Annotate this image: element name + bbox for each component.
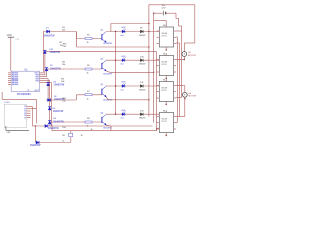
junction bus A loop <box>148 23 149 24</box>
pin stub RL3 left 2 <box>157 91 160 93</box>
resistor R7 base row 3 <box>85 94 92 96</box>
wire riser 2 <box>44 52 46 75</box>
svg-text:1N4007W: 1N4007W <box>30 144 41 147</box>
svg-text:1N4007W: 1N4007W <box>43 35 55 38</box>
svg-text:12V DC: 12V DC <box>161 64 167 66</box>
transistor Q1 BC547 <box>102 32 106 43</box>
junction motor2 <box>184 98 185 99</box>
wire emitter rail row 2 <box>110 71 154 73</box>
pin stub RL2 right 2 <box>174 65 176 67</box>
junction bus row1 <box>115 31 116 32</box>
wire left edge drop <box>1 92 3 99</box>
svg-text:RB3: RB3 <box>36 80 39 82</box>
junction bus A row1 <box>148 31 149 32</box>
junction rail3 bus <box>148 99 149 100</box>
svg-text:1N4007: 1N4007 <box>139 35 146 37</box>
pin stub RL2 left 3 <box>157 71 160 73</box>
wire bus left C <box>156 52 158 131</box>
svg-text:MOTOR: MOTOR <box>188 55 196 57</box>
diode DF 1N4148 <box>48 98 51 101</box>
transistor Q2 BC547 <box>102 61 106 72</box>
wire LCD top rail <box>2 98 36 100</box>
pin stub U1 right 1 <box>40 72 44 74</box>
junction bottom cluster <box>35 125 36 126</box>
wire motor1 top <box>183 43 185 52</box>
svg-text:1N4007: 1N4007 <box>139 118 146 120</box>
pin stub RL1 left 3 <box>157 43 160 45</box>
junction bus row3 <box>115 85 116 86</box>
wire emitter Q3 link <box>106 97 108 100</box>
wire drop battery plus <box>175 13 177 18</box>
wire drop to bottom row B <box>34 126 36 143</box>
svg-text:R9: R9 <box>62 135 65 137</box>
resistor R5 base row 1 <box>85 38 92 40</box>
wire RL1 pin1 link <box>176 30 182 32</box>
wire base row 2 <box>76 68 102 70</box>
pin stub U1 left 6 <box>8 81 11 83</box>
junction RL4 bottom <box>166 135 167 136</box>
diode D4 1N4148 vertical <box>48 121 51 124</box>
svg-text:P4: P4 <box>24 115 26 117</box>
wire base row 4 <box>76 121 102 123</box>
svg-text:1k: 1k <box>87 98 89 100</box>
pin stub RL1 left 1 <box>157 30 160 32</box>
svg-text:P5: P5 <box>24 117 26 119</box>
junction motor1 <box>184 59 185 60</box>
svg-text:D11: D11 <box>140 82 144 84</box>
wire bus right A <box>176 37 178 123</box>
svg-text:+5V: +5V <box>15 39 19 41</box>
svg-text:R5: R5 <box>87 35 90 37</box>
pin stub RL3 right 2 <box>174 91 176 93</box>
wire RL3 pin3 link <box>176 97 182 99</box>
pin stub LCD right 6 <box>27 117 31 119</box>
svg-text:12V: 12V <box>161 8 165 10</box>
relay RL1 top pin <box>165 25 167 27</box>
wire motor1 bottom <box>183 56 185 59</box>
pin stub U1 left 7 <box>8 83 11 85</box>
relay RL2 bottom pin <box>165 76 167 79</box>
svg-text:LED: LED <box>121 56 126 58</box>
wire top loop row1 <box>111 23 149 25</box>
wire channel row 3 <box>106 85 160 87</box>
pin stub LCD right 3 <box>27 110 31 112</box>
wire bus right B <box>179 43 181 117</box>
svg-text:1k: 1k <box>81 135 83 137</box>
diode DB 1N4148 <box>45 124 48 127</box>
pin stub RL2 left 2 <box>157 65 160 67</box>
svg-text:10k: 10k <box>62 64 66 66</box>
svg-text:R8: R8 <box>87 118 90 120</box>
wire riser 6 <box>50 82 52 126</box>
svg-text:100: 100 <box>62 101 65 103</box>
ground wire dark <box>6 126 29 130</box>
svg-text:D10: D10 <box>140 56 145 58</box>
svg-text:OSC2: OSC2 <box>34 90 39 92</box>
wire RL3 pin1 to motor2 <box>176 85 185 87</box>
wire R11 bottom <box>70 137 72 143</box>
svg-text:red: red <box>121 64 124 66</box>
wire emitter rail row 1 <box>76 46 148 48</box>
LED D6 <box>122 57 126 61</box>
junction RL3 bottom <box>166 104 167 105</box>
relay RL1 body <box>159 27 173 47</box>
svg-text:D1: D1 <box>46 28 50 30</box>
IC U1 microcontroller body <box>11 71 39 91</box>
junction RL1 bottom <box>166 49 167 50</box>
wire into RL4 pin 3 <box>157 127 160 129</box>
pin stub RL1 right 1 <box>174 30 176 32</box>
svg-text:U5: U5 <box>188 52 192 54</box>
pin stub U1 left 3 <box>8 76 11 78</box>
diode D3 1N4148 vertical <box>47 83 50 86</box>
svg-text:12V DC: 12V DC <box>161 35 167 37</box>
junction bus row2 <box>115 60 116 61</box>
svg-text:OMI-SH: OMI-SH <box>161 62 168 64</box>
wire rail to RL1 top <box>154 20 167 22</box>
svg-text:BC547B: BC547B <box>104 43 113 45</box>
svg-text:1N4007W: 1N4007W <box>48 127 59 130</box>
pin stub RL4 left 1 <box>157 116 160 118</box>
svg-text:Q1: Q1 <box>100 30 104 32</box>
junction battery bus B <box>153 13 154 14</box>
wire channel row 4 <box>106 113 160 115</box>
wire bus left A <box>148 5 150 117</box>
wire motor2 bottom <box>184 97 186 116</box>
svg-text:1k: 1k <box>62 141 64 143</box>
wire drop rail right <box>194 5 196 43</box>
relay RL1 bottom pin <box>165 47 167 50</box>
wire riser 4 <box>47 79 49 100</box>
diode DE 1N4148 <box>36 141 39 144</box>
svg-text:red: red <box>121 118 124 120</box>
svg-text:Q4: Q4 <box>100 112 104 114</box>
svg-text:red: red <box>121 35 124 37</box>
wire battery left <box>154 12 163 14</box>
svg-text:red: red <box>121 89 124 91</box>
wire battery right <box>166 12 176 14</box>
wire LCD pin2 out <box>31 108 37 110</box>
relay RL4 body <box>159 113 173 133</box>
relay RL3 body <box>159 82 173 102</box>
diode flyback row 1 1N4007 <box>140 30 143 33</box>
pin stub RL2 left 1 <box>157 59 160 61</box>
wire LCD riser A <box>31 107 33 127</box>
transistor Q4 BC547 <box>102 115 106 126</box>
svg-text:LCD1: LCD1 <box>5 102 11 104</box>
svg-text:Q2: Q2 <box>100 58 104 60</box>
wire bus right C <box>181 31 183 98</box>
wire base row 3 <box>76 94 102 96</box>
svg-text:R7: R7 <box>87 91 90 93</box>
pin stub LCD right 2 <box>27 108 31 110</box>
svg-text:1N4007W: 1N4007W <box>54 84 65 87</box>
wire riser 5 <box>49 81 51 123</box>
wire bus left B <box>153 13 155 122</box>
svg-text:12V DC: 12V DC <box>161 121 167 123</box>
wire LCD riser B <box>35 99 37 123</box>
svg-text:X1: X1 <box>27 90 29 92</box>
LED D5 <box>122 29 126 33</box>
wire rail to motor1 <box>184 42 195 44</box>
svg-text:1N4007: 1N4007 <box>139 89 146 91</box>
wire input row 2 <box>47 68 77 70</box>
svg-text:R10: R10 <box>62 127 67 129</box>
pin stub U1 right 2 <box>40 74 45 76</box>
svg-text:LED: LED <box>121 82 126 84</box>
wire bottom row B <box>39 142 71 144</box>
wire RL1 pin2 link <box>176 36 177 38</box>
svg-text:1k: 1k <box>87 73 89 75</box>
pin stub U1 right 6 <box>40 81 52 83</box>
resistor R11 vertical <box>69 133 73 136</box>
wire riser 1 <box>42 32 44 73</box>
pin stub RL3 right 3 <box>174 97 176 99</box>
wire jog RL4 <box>156 128 158 131</box>
pin stub U1 left 4 <box>8 78 11 80</box>
svg-text:1N4007W: 1N4007W <box>50 67 61 70</box>
wire RL4 pin1 link <box>176 116 180 118</box>
svg-text:10k: 10k <box>61 81 65 83</box>
wire mid row A <box>45 51 157 53</box>
svg-text:1N4007W: 1N4007W <box>53 120 64 123</box>
wire channel row 1 <box>106 31 160 33</box>
svg-text:P2: P2 <box>24 111 26 113</box>
wire channel row 2 <box>106 59 160 61</box>
diode D2 1N4148 vertical <box>45 68 48 71</box>
svg-text:OMI-SH: OMI-SH <box>161 88 168 90</box>
battery B1 <box>163 11 165 16</box>
relay RL4 top pin <box>165 111 167 113</box>
wire motor2 top <box>184 86 186 93</box>
wire top rail <box>149 4 195 6</box>
wire motor2 to RL4 <box>180 116 185 118</box>
LED D7 <box>122 83 126 87</box>
svg-text:BC547B: BC547B <box>104 74 113 76</box>
pin stub RL1 right 3 <box>174 43 176 45</box>
relay RL3 top pin <box>165 80 167 82</box>
svg-text:1N4007W: 1N4007W <box>53 110 64 113</box>
junction rail1 bus <box>148 46 149 47</box>
transistor Q3 BC547 <box>102 86 106 97</box>
svg-text:D12: D12 <box>140 110 145 112</box>
svg-text:1k: 1k <box>87 42 89 44</box>
pin stub U1 right 5 <box>40 80 50 82</box>
wire VDD to U1 <box>10 37 12 71</box>
pin stub RL4 right 1 <box>174 116 176 118</box>
pin stub U1 left 5 <box>8 80 11 82</box>
wire RL1 top pin feed <box>165 21 167 27</box>
relay RL3 bottom pin <box>165 102 167 105</box>
svg-text:OMI-SH: OMI-SH <box>161 119 168 121</box>
relay RL2 top pin <box>165 54 167 56</box>
wire LCD pin1 out <box>31 106 33 108</box>
pin stub RL4 right 2 <box>174 122 176 124</box>
pin stub U1 right 3 <box>40 76 47 78</box>
pin stub RL3 right 1 <box>174 85 176 87</box>
pin stub LCD right 4 <box>27 112 31 114</box>
svg-text:LED: LED <box>121 27 126 29</box>
resistor R8 base row 4 <box>85 121 92 123</box>
svg-text:LED: LED <box>121 110 126 112</box>
pin stub U1 left 1 <box>8 72 11 74</box>
diode flyback row 3 1N4007 <box>140 85 143 88</box>
svg-text:12V DC: 12V DC <box>161 90 167 92</box>
wire R11 top <box>70 131 72 134</box>
pin stub RL4 left 2 <box>157 122 160 124</box>
pin stub RL4 left 3 <box>157 128 160 130</box>
wire rail3 feed jog <box>75 95 77 100</box>
svg-text:U6: U6 <box>188 93 192 95</box>
svg-text:100: 100 <box>63 46 66 48</box>
wire rail3 left feed <box>46 99 76 101</box>
svg-text:GND: GND <box>7 132 12 134</box>
svg-text:OMI-SH: OMI-SH <box>161 33 168 35</box>
wire jog battery plus 2 <box>179 25 182 27</box>
LED D8 <box>122 111 126 115</box>
wire emitter rail row 4 <box>52 130 157 132</box>
power symbol VDD bar <box>8 36 14 38</box>
svg-text:MOTOR: MOTOR <box>188 96 196 98</box>
svg-text:R6: R6 <box>87 65 90 67</box>
svg-text:1N4007W: 1N4007W <box>50 51 61 54</box>
svg-text:1N4007: 1N4007 <box>139 64 146 66</box>
svg-text:P1: P1 <box>24 108 26 110</box>
svg-text:Q3: Q3 <box>100 84 104 86</box>
wire jog battery plus <box>176 17 179 19</box>
wire drop battery plus 3 <box>181 26 183 31</box>
svg-text:D9: D9 <box>140 28 143 30</box>
pin stub U1 left 2 <box>8 74 11 76</box>
wire motor1 to RL2 <box>176 59 184 61</box>
wire riser 3 <box>46 69 48 77</box>
svg-text:1k: 1k <box>91 129 93 131</box>
relay RL4 bottom pin <box>165 133 167 136</box>
wire drop row1 long <box>75 32 77 48</box>
wire drop battery plus 2 <box>178 18 180 26</box>
diode flyback row 2 1N4007 <box>140 59 143 62</box>
junction rail2 bus <box>153 72 154 73</box>
pin stub RL3 left 1 <box>157 85 160 87</box>
wire emitter Q2 link <box>106 71 110 72</box>
pin stub RL1 left 2 <box>157 36 160 38</box>
svg-text:P3: P3 <box>24 113 26 115</box>
pin stub RL2 right 3 <box>174 71 176 73</box>
svg-text:RA0/AN0: RA0/AN0 <box>12 72 18 75</box>
diode flyback row 4 1N4007 <box>140 113 143 116</box>
junction bus row4 <box>115 114 116 115</box>
wire jog row 1 <box>75 32 77 39</box>
pin stub RL3 left 3 <box>157 97 160 99</box>
resistor R6 base row 2 <box>85 68 92 70</box>
pin stub U1 right 4 <box>40 78 49 80</box>
wire RL1 pin3 link <box>176 42 180 44</box>
pin stub RL1 right 2 <box>174 36 176 38</box>
wire input row 1 <box>43 31 76 33</box>
svg-text:PIC16F628A: PIC16F628A <box>17 93 31 96</box>
pin stub RL2 right 1 <box>174 59 176 61</box>
pin stub LCD right 5 <box>27 114 31 116</box>
wire emitter rail row 3 <box>108 99 149 101</box>
wire RL4 pin2 link <box>176 122 177 124</box>
junction RL2 bottom <box>166 78 167 79</box>
wire input row 4 <box>50 121 77 123</box>
diode DA 1N4148 vertical <box>43 50 46 53</box>
wire drop to rail row 4 <box>51 126 53 131</box>
svg-text:VDD: VDD <box>7 34 12 37</box>
wire base row 1 <box>76 38 102 40</box>
diode DC 1N4148 vertical <box>48 107 51 110</box>
relay RL2 body <box>159 56 173 76</box>
pin stub RL4 right 3 <box>174 128 176 130</box>
wire emitter Q4 drop <box>110 126 112 131</box>
wire bottom row A <box>32 125 152 127</box>
wire drop loop to row1 <box>110 24 112 32</box>
wire emitter Q4 out <box>106 125 111 126</box>
pin stub LCD right 1 <box>27 106 31 108</box>
LCD module LCD1 body <box>4 104 26 127</box>
diode D1 1N4148 <box>47 30 50 33</box>
wire bus LED column <box>115 32 117 115</box>
svg-text:P0: P0 <box>24 106 26 108</box>
